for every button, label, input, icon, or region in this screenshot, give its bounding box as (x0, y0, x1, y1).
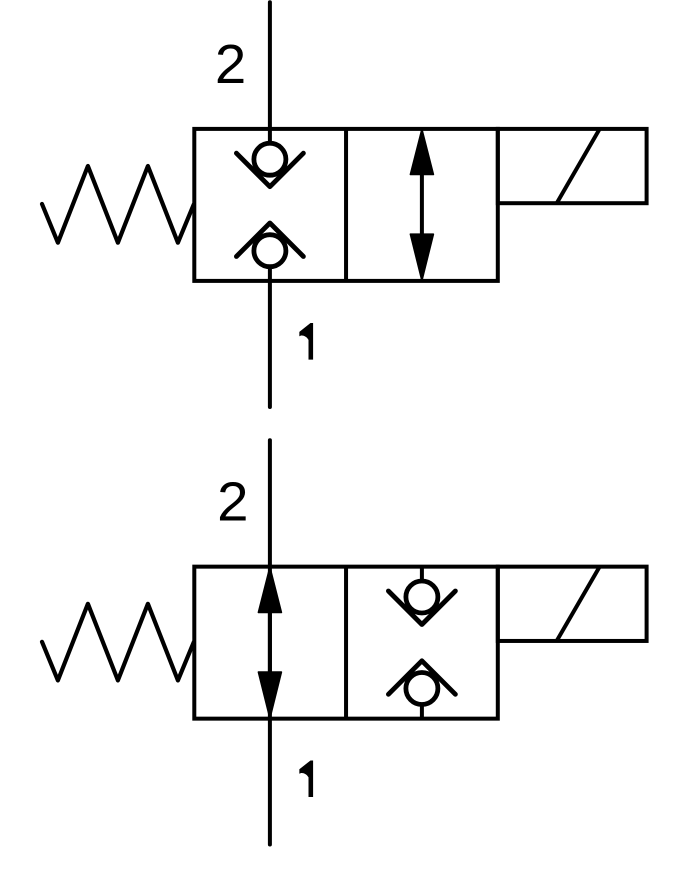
check valve CV2 (closed seat, lower) : seat (inverted V) (236, 223, 303, 257)
check valve CV4 circle (406, 673, 438, 705)
svg-text:2: 2 (217, 471, 248, 532)
solenoid coil box (498, 567, 647, 641)
return spring (42, 166, 194, 243)
check valve CV3 stub wire to body top (420, 567, 424, 583)
check valve CV4 stub wire to body bottom (420, 703, 424, 719)
flow arrow head up (258, 567, 281, 612)
check valve CV3 seat (V) (388, 591, 455, 625)
flow path arrow shaft overlap (268, 610, 272, 674)
port label 1 (299, 323, 313, 360)
flow path arrow (energized position, double headed) shaft (420, 172, 424, 237)
flow arrow head up (410, 129, 433, 174)
wire port 2 line (upper) (268, 2, 272, 141)
check valve CV1 seat (V) (236, 153, 303, 187)
check valve CV3 circle (406, 581, 438, 613)
position divider line (344, 567, 348, 719)
solenoid diagonal stroke (557, 567, 600, 641)
port label 1 (299, 760, 313, 797)
return spring (42, 604, 194, 681)
solenoid diagonal stroke (557, 129, 600, 203)
valve V2 (bottom, 2/2 poppet valve, energized position shown left) (42, 440, 647, 844)
wire port 2 / port 1 through line (268, 440, 272, 844)
position divider line (344, 129, 348, 281)
svg-text:2: 2 (215, 34, 246, 95)
valve body envelope (two squares) (194, 567, 498, 719)
valve body envelope (two squares) (194, 129, 498, 281)
solenoid coil box (498, 129, 647, 203)
check valve CV4 seat (inverted V) (388, 661, 455, 695)
flow arrow head down (410, 234, 433, 280)
check valve CV2 circle (254, 235, 286, 267)
wire port 1 line (upper valve) (268, 267, 272, 407)
check valve CV1 (closed seat, upper) : circle (254, 143, 286, 175)
valve V1 (top, 2/2 poppet valve, de-energized position shown left) (42, 2, 647, 407)
flow arrow head down (258, 672, 281, 718)
